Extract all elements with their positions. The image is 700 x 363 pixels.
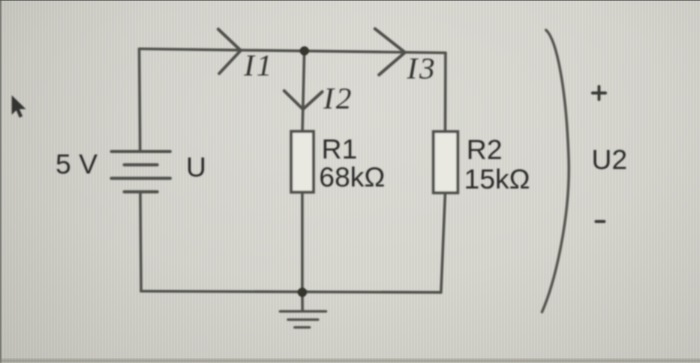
- svg-text:R1: R1: [322, 134, 358, 165]
- svg-text:I1: I1: [243, 48, 274, 83]
- svg-text:U: U: [186, 152, 206, 183]
- svg-text:R2: R2: [467, 134, 503, 165]
- svg-text:68kΩ: 68kΩ: [319, 162, 385, 193]
- svg-text:I2: I2: [323, 81, 354, 116]
- svg-text:U2: U2: [592, 144, 628, 175]
- svg-text:15kΩ: 15kΩ: [464, 164, 530, 195]
- svg-text:I3: I3: [406, 51, 437, 86]
- svg-text:5 V: 5 V: [56, 149, 98, 180]
